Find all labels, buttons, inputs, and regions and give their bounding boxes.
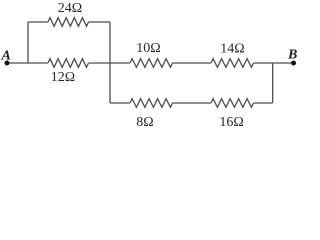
wire left vertical of 24ohm branch xyxy=(27,22,29,63)
svg-text:12Ω: 12Ω xyxy=(51,70,75,85)
wire top branch right segment xyxy=(89,21,111,23)
wire right vertical to main xyxy=(272,63,274,103)
svg-text:8Ω: 8Ω xyxy=(136,115,153,130)
node B terminal dot xyxy=(291,61,296,66)
svg-text:A: A xyxy=(1,48,11,63)
resistor R12 zigzag xyxy=(48,59,89,68)
resistor R24 zigzag xyxy=(48,18,89,27)
wire top branch left segment xyxy=(28,21,48,23)
wire 10ohm to 14ohm xyxy=(173,62,212,64)
resistor R10 zigzag xyxy=(130,59,173,68)
svg-text:14Ω: 14Ω xyxy=(220,41,244,56)
svg-text:B: B xyxy=(287,48,297,63)
node A terminal dot xyxy=(5,61,10,66)
svg-text:24Ω: 24Ω xyxy=(58,1,82,16)
wire bottom branch left segment xyxy=(110,102,130,104)
wire 8ohm to 16ohm xyxy=(173,102,212,104)
wire middle junction vertical xyxy=(109,22,111,103)
svg-text:16Ω: 16Ω xyxy=(219,115,243,130)
wire 12ohm to 10ohm xyxy=(89,62,131,64)
resistor R16 zigzag xyxy=(211,99,254,108)
resistor R14 zigzag xyxy=(211,59,254,68)
resistor R8 zigzag xyxy=(130,99,173,108)
wire A to 12ohm xyxy=(7,62,48,64)
wire bottom branch right segment xyxy=(254,102,273,104)
wire 14ohm to B xyxy=(254,62,294,64)
svg-text:10Ω: 10Ω xyxy=(136,41,160,56)
